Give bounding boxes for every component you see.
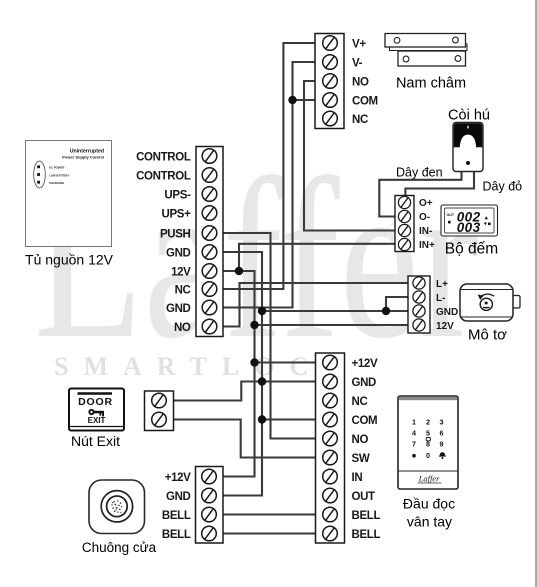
labels top lock block: [352, 38, 378, 126]
wire 12V to IN+ (counter): [239, 244, 395, 271]
svg-text:Nút Exit: Nút Exit: [71, 433, 120, 449]
svg-text:IN: IN: [352, 472, 363, 484]
svg-text:UPS-: UPS-: [164, 189, 191, 201]
wire 12V bus to +12V (middle block): [255, 361, 316, 363]
svg-text:Còi hú: Còi hú: [448, 108, 490, 124]
svg-text:BELL: BELL: [162, 529, 191, 541]
terminal block: middle fingerprint block: [316, 353, 345, 543]
svg-text:Dây đỏ: Dây đỏ: [483, 180, 523, 194]
exit button (Nut Exit): [69, 389, 124, 431]
svg-text:3: 3: [440, 418, 444, 427]
wire NO (left block) to motor L+: [223, 283, 408, 327]
right edge scrollbar line: [535, 0, 537, 587]
labels middle fingerprint block: [352, 358, 381, 541]
wire exit button terminal 2 to SW (middle block): [174, 420, 316, 458]
wire V- (top block) to GND (left block row 9): [223, 62, 315, 308]
svg-text:SW: SW: [352, 453, 370, 465]
svg-text:7: 7: [412, 440, 416, 449]
svg-text:OUT: OUT: [352, 491, 376, 503]
svg-text:9: 9: [440, 440, 444, 449]
svg-text:SMARTLOCK: SMARTLOCK: [54, 352, 359, 381]
wire 12V bus: 12V (left block) to +12V (bottom-left block): [223, 271, 255, 477]
svg-text:Đầu đọc: Đầu đọc: [403, 496, 455, 512]
power supply box (Tu nguon 12V): [26, 141, 112, 247]
fingerprint reader (Dau doc van tay): [398, 396, 458, 489]
terminal block: bottom-left bell block: [196, 467, 224, 544]
junction 12V / IN+ branch: [235, 267, 243, 275]
svg-text:Laffer: Laffer: [418, 473, 440, 483]
svg-text:003: 003: [457, 220, 481, 235]
svg-text:UPS+: UPS+: [162, 208, 192, 220]
svg-text:L+: L+: [436, 279, 448, 290]
counter display (Bo dem): [441, 205, 498, 236]
svg-text:CONTROL: CONTROL: [136, 151, 191, 163]
svg-text:vân tay: vân tay: [407, 514, 452, 530]
svg-text:Nam châm: Nam châm: [396, 76, 466, 92]
wire NO (top block) to IN- (counter): [304, 81, 395, 231]
wire motor L- link to motor GND: [386, 297, 408, 311]
labels counter block: [419, 198, 435, 251]
terminal block: counter block: [395, 196, 414, 252]
svg-text:Dây đen: Dây đen: [396, 166, 443, 180]
svg-text:O+: O+: [419, 198, 433, 209]
svg-text:PUSH: PUSH: [160, 228, 191, 240]
svg-text:+12V: +12V: [165, 472, 191, 484]
wire GND bus to COM (middle block): [262, 418, 316, 420]
svg-text:O-: O-: [419, 212, 430, 223]
svg-text:0: 0: [426, 451, 430, 460]
svg-text:5: 5: [426, 429, 430, 438]
wire BELL 1: [223, 513, 316, 515]
svg-text:Power Supply Control: Power Supply Control: [62, 155, 104, 160]
svg-text:IN+: IN+: [419, 240, 435, 251]
svg-text:GND: GND: [166, 303, 191, 315]
svg-text:12V: 12V: [436, 321, 454, 332]
junction GND bus / GND middle block: [258, 377, 266, 385]
junction motor L- / GND: [382, 307, 390, 315]
labels motor block: [436, 279, 458, 332]
labels bottom-left bell block: [162, 472, 191, 541]
svg-text:GND: GND: [166, 491, 191, 503]
svg-text:GND: GND: [166, 247, 191, 259]
svg-text:CHARGING: CHARGING: [49, 181, 64, 185]
wire PUSH (left block) to NO (middle block): [223, 233, 316, 439]
svg-text:+12V: +12V: [352, 358, 378, 370]
wire red (Day do): siren to O+ (counter): [405, 172, 474, 196]
svg-text:NC: NC: [175, 284, 191, 296]
svg-text:Tủ nguồn 12V: Tủ nguồn 12V: [25, 252, 114, 268]
svg-text:IN-: IN-: [419, 226, 432, 237]
svg-text:BELL: BELL: [352, 529, 381, 541]
terminal block: exit button block: [145, 391, 174, 431]
siren (Coi hu): [453, 123, 483, 172]
wire COM (top block) to V- vertical: [293, 99, 316, 101]
svg-text:6: 6: [440, 429, 444, 438]
svg-text:V+: V+: [352, 38, 366, 50]
svg-text:COM: COM: [352, 415, 378, 427]
svg-text:NC: NC: [352, 114, 368, 126]
svg-text:LOW BATTERY: LOW BATTERY: [49, 173, 69, 177]
svg-text:2: 2: [426, 418, 430, 427]
wire black (Day den): siren to O- (counter): [379, 172, 461, 217]
wire 12V bus to motor 12V: [255, 324, 409, 326]
svg-text:COM: COM: [352, 95, 378, 107]
svg-text:Mô tơ: Mô tơ: [468, 327, 507, 344]
terminal block: left controller block: [196, 147, 223, 337]
terminal block: top lock block: [315, 34, 344, 129]
svg-text:NO: NO: [352, 76, 369, 88]
svg-text:Bộ đếm: Bộ đếm: [445, 241, 498, 258]
svg-text:Chuông cửa: Chuông cửa: [82, 540, 157, 555]
junction GND bus / COM middle block: [258, 415, 266, 423]
svg-text:12V: 12V: [171, 266, 191, 278]
labels left controller block: [136, 151, 191, 333]
terminal block: motor block: [408, 276, 430, 333]
wire GND line to exit button terminal 1: [174, 382, 316, 401]
svg-text:EXIT: EXIT: [88, 416, 106, 425]
junction dots: [235, 96, 390, 424]
svg-text:NO: NO: [352, 434, 369, 446]
svg-text:NO: NO: [174, 322, 191, 334]
junction 12V bus / +12V middle block: [250, 358, 258, 366]
doorbell (Chuong cua): [89, 480, 145, 534]
wire GND bus: GND (left block) to GND (bottom-left block): [223, 252, 262, 496]
svg-text:NC: NC: [352, 396, 368, 408]
svg-text:OUT: OUT: [447, 213, 455, 217]
junction GND bus / motor GND: [258, 307, 266, 315]
svg-text:GND: GND: [352, 377, 377, 389]
junction COM / V-: [288, 96, 296, 104]
svg-text:BELL: BELL: [162, 510, 191, 522]
svg-text:CONTROL: CONTROL: [136, 170, 191, 182]
svg-text:V-: V-: [352, 57, 363, 69]
svg-text:DOOR: DOOR: [78, 396, 113, 408]
motor (Mo to): [460, 284, 520, 321]
svg-text:L-: L-: [436, 293, 445, 304]
junction 12V bus / motor 12V: [250, 321, 258, 329]
wire GND bus to motor GND: [262, 310, 408, 312]
maglock (Nam cham): [385, 34, 467, 67]
wire V+ (top block) to NC (left block): [223, 43, 315, 289]
svg-text:4: 4: [412, 429, 416, 438]
watermark Laffer: [34, 131, 479, 386]
svg-text:AC POWER: AC POWER: [49, 166, 64, 170]
wire BELL 2: [223, 532, 316, 534]
svg-text:GND: GND: [436, 307, 458, 318]
svg-text:BELL: BELL: [352, 510, 381, 522]
svg-text:1: 1: [412, 418, 416, 427]
